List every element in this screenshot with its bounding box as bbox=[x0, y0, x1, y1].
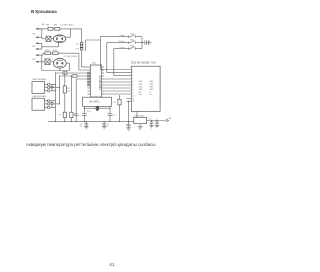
MCU right pins bbox=[102, 67, 104, 94]
ground bbox=[84, 127, 89, 129]
regulator DA1 7805 bbox=[134, 111, 147, 123]
svg-text:12: 12 bbox=[132, 101, 134, 103]
crystal ZQ1 bbox=[84, 106, 111, 113]
svg-text:4к7: 4к7 bbox=[67, 91, 71, 93]
svg-text:+5В: +5В bbox=[167, 118, 171, 120]
resistor R9 bbox=[54, 24, 60, 30]
MCU DD1 bbox=[90, 62, 101, 97]
svg-text:PIC16F628A: PIC16F628A bbox=[98, 76, 101, 91]
capacitor C1 bbox=[142, 40, 149, 44]
svg-text:R8: R8 bbox=[46, 24, 50, 26]
wire SB3 drop bbox=[114, 49, 132, 76]
svg-text:ДА 4МГц: ДА 4МГц bbox=[90, 101, 100, 104]
sensor DA2 pins bbox=[45, 83, 60, 92]
wire opto2 out bbox=[60, 63, 70, 70]
switch SB1 bbox=[100, 34, 142, 38]
svg-text:R9: R9 bbox=[54, 24, 58, 26]
wire to bus v2 bbox=[58, 52, 79, 54]
ground bbox=[149, 126, 154, 128]
capacitor C5 to ground bbox=[102, 121, 109, 128]
svg-text:ZQ1: ZQ1 bbox=[87, 111, 92, 113]
switch SB2 bbox=[107, 40, 142, 44]
svg-text:R3: R3 bbox=[76, 44, 79, 46]
MCU left pins bbox=[88, 67, 91, 94]
pull-up resistor R1 bbox=[63, 72, 71, 112]
svg-text:2: 2 bbox=[132, 72, 133, 74]
capacitor C3 bbox=[108, 114, 117, 122]
ground bbox=[102, 127, 107, 129]
svg-text:DD1: DD1 bbox=[92, 62, 97, 64]
svg-text:22: 22 bbox=[80, 126, 82, 128]
wire SB2 drop bbox=[107, 43, 132, 73]
svg-text:DD2 WH1602B-YGH: DD2 WH1602B-YGH bbox=[131, 60, 156, 64]
crystal block ZQ1 bbox=[83, 97, 112, 106]
switch SB3 bbox=[114, 46, 142, 50]
wire bus B bbox=[59, 75, 88, 77]
caption bbox=[26, 142, 156, 147]
LCD inner labels bbox=[139, 81, 154, 96]
circuit schematic bbox=[0, 0, 210, 272]
capacitor C2 bbox=[78, 114, 87, 122]
svg-text:5: 5 bbox=[132, 81, 133, 83]
resistor R10 bbox=[45, 50, 51, 55]
LCD pin numbers bbox=[132, 69, 134, 103]
wire bus A bbox=[55, 72, 88, 74]
svg-text:DA3 DS18B20: DA3 DS18B20 bbox=[32, 95, 47, 98]
LCD bus wires bbox=[104, 79, 131, 94]
sensor DA2 bbox=[32, 78, 47, 94]
bridge box VD2 bbox=[45, 59, 50, 65]
svg-text:ХР2: ХР2 bbox=[32, 46, 37, 48]
wire bbox=[51, 38, 54, 40]
crystal leads bbox=[84, 106, 110, 114]
sensor bus verticals bbox=[55, 73, 60, 107]
svg-text:8: 8 bbox=[132, 90, 133, 92]
ground rail bbox=[48, 121, 134, 122]
svg-text:22: 22 bbox=[107, 126, 109, 128]
capacitor C7 bbox=[155, 118, 159, 125]
wire sensor gnd down bbox=[55, 107, 57, 121]
+5V label node bbox=[42, 24, 45, 26]
svg-text:С3: С3 bbox=[113, 115, 116, 117]
ground under regulator bbox=[138, 124, 143, 130]
wire to bus v1 bbox=[60, 28, 82, 30]
resistor R2 vertical bbox=[70, 75, 77, 121]
svg-text:RW: RW bbox=[139, 94, 142, 96]
capacitor at DA3 bbox=[50, 101, 53, 108]
wire node A bbox=[86, 40, 101, 51]
wire opto1 right up bbox=[66, 29, 71, 37]
header title bbox=[31, 9, 57, 14]
opto-triac U1 bbox=[53, 35, 65, 43]
resistor R7 bbox=[113, 95, 121, 122]
wire opto1 bottom bbox=[42, 42, 59, 46]
ground bbox=[126, 128, 131, 130]
capacitor C4 to ground bbox=[80, 121, 88, 128]
LCD short pins bbox=[127, 98, 132, 101]
LCD module DD2 bbox=[131, 60, 160, 111]
svg-text:R4: R4 bbox=[76, 48, 79, 50]
bridge box VD1 bbox=[46, 36, 51, 41]
svg-text:1: 1 bbox=[132, 69, 133, 71]
svg-text:5В: 5В bbox=[42, 24, 45, 26]
switch common node bbox=[141, 37, 142, 49]
svg-text:С1 МОС3041: С1 МОС3041 bbox=[60, 24, 74, 26]
capacitor at DA2 bbox=[50, 84, 53, 91]
wire top row block1 bbox=[38, 28, 48, 30]
sensor DA3 pins bbox=[45, 100, 60, 109]
terminal pair XP1 bbox=[32, 28, 42, 39]
sensor DA3 bbox=[32, 95, 47, 110]
svg-text:10: 10 bbox=[132, 95, 134, 97]
bus wire v2 bbox=[79, 53, 88, 70]
opto-triac U2 bbox=[53, 58, 66, 68]
svg-text:R7: R7 bbox=[113, 102, 116, 104]
wire bbox=[51, 52, 53, 54]
block2: wire top row bbox=[43, 53, 45, 55]
svg-text:С8: С8 bbox=[59, 115, 62, 117]
wire opto2 bottom to rail bbox=[42, 68, 60, 71]
resistor R11 bbox=[53, 50, 59, 55]
wire bbox=[50, 61, 53, 63]
wire MCU pin to rail bbox=[76, 79, 87, 114]
svg-text:С2: С2 bbox=[78, 115, 81, 117]
bus wire v1 with resistor pack bbox=[76, 29, 88, 67]
capacitor C8 vertical bbox=[59, 112, 67, 121]
+5V arrow bbox=[166, 118, 172, 122]
capacitor C4 bbox=[127, 122, 131, 128]
svg-text:VO: VO bbox=[150, 94, 153, 96]
resistor R8 bbox=[46, 24, 53, 30]
svg-text:9: 9 bbox=[132, 93, 133, 95]
svg-text:ХР3: ХР3 bbox=[32, 59, 37, 61]
wire bbox=[53, 28, 55, 30]
svg-text:4: 4 bbox=[132, 78, 133, 80]
ground (rotated) bbox=[149, 40, 151, 45]
wire LCD to rail bbox=[128, 101, 130, 121]
svg-text:DA1 7805: DA1 7805 bbox=[134, 114, 145, 117]
terminal pair XP2 bbox=[32, 42, 42, 50]
svg-text:6: 6 bbox=[132, 84, 133, 86]
ground bbox=[155, 126, 160, 128]
svg-text:С7: С7 bbox=[155, 118, 158, 120]
capacitor C9 bbox=[74, 114, 78, 122]
page number bbox=[109, 262, 114, 267]
svg-text:3: 3 bbox=[132, 75, 133, 77]
svg-text:7: 7 bbox=[132, 87, 133, 89]
wire bbox=[42, 38, 46, 40]
terminal pair XP3 bbox=[32, 54, 45, 63]
wire SB1 drop bbox=[100, 37, 131, 70]
svg-text:ХР1: ХР1 bbox=[32, 33, 37, 35]
capacitor C6 bbox=[149, 118, 154, 125]
output wire bbox=[147, 120, 167, 122]
svg-text:11: 11 bbox=[132, 98, 134, 100]
svg-text:DA2 DS18B20: DA2 DS18B20 bbox=[32, 78, 47, 81]
svg-text:С2 МОС3041: С2 МОС3041 bbox=[64, 56, 78, 58]
